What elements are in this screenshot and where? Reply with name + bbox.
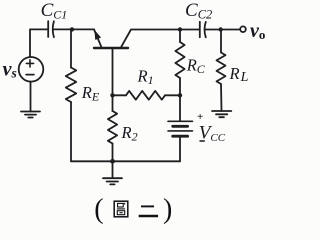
vs plus sign: [26, 60, 33, 67]
resistor RL: [217, 30, 226, 111]
wire from CC1 to emitter corner: [53, 28, 94, 30]
vs minus sign: [26, 74, 34, 76]
wire top-left rail from input corner to capacitor CC1: [30, 29, 48, 57]
ground below vs: [21, 112, 40, 118]
label battery minus (underline below V): [200, 140, 205, 142]
resistor R2: [108, 95, 117, 161]
caption glyph ER (two): [139, 206, 158, 216]
transistor Q1 base bar: [94, 47, 128, 49]
capacitor CC1: [48, 21, 54, 37]
svg-text:(: (: [94, 194, 103, 225]
battery VCC: [168, 121, 193, 136]
wire from RC node to capacitor CC2: [180, 29, 200, 31]
svg-text:vs: vs: [3, 58, 17, 80]
wire RE top lead: [70, 29, 72, 67]
node B junction dot (base / R1 / R2): [110, 93, 114, 97]
svg-text:CC2: CC2: [185, 0, 212, 22]
svg-text:RC: RC: [186, 55, 206, 76]
node D junction dot (collector rail / RC top): [178, 27, 182, 31]
wire bottom rail: [71, 160, 180, 162]
node F junction dot (R2 bottom / ground): [110, 159, 115, 164]
transistor Q1 emitter lead with arrow: [94, 29, 102, 48]
svg-text:vo: vo: [250, 20, 265, 42]
wire VCC top lead: [179, 95, 181, 120]
resistor RE: [66, 68, 76, 103]
wire base lead down to R1/R2 node: [112, 48, 114, 95]
svg-text:R2: R2: [121, 123, 138, 144]
wire from CC2 to output terminal: [205, 29, 240, 31]
output terminal vo open circle: [240, 26, 246, 32]
svg-text:RL: RL: [229, 64, 249, 85]
ground below RL: [212, 111, 231, 117]
wire RE bottom lead: [70, 102, 72, 161]
node C junction dot (RC bottom / R1 / VCC top): [178, 93, 182, 97]
node E junction dot (RL top): [219, 27, 223, 31]
svg-text:+: +: [197, 111, 203, 123]
capacitor CC2: [200, 22, 206, 38]
resistor R1: [113, 91, 181, 100]
wire vs bottom lead: [30, 82, 32, 112]
node A junction dot (CC1 / RE / emitter): [70, 27, 74, 31]
caption glyph TU (picture): [114, 201, 128, 217]
svg-text:RE: RE: [81, 83, 100, 104]
svg-text:): ): [163, 194, 172, 225]
resistor RC: [175, 30, 184, 96]
transistor Q1 collector lead: [121, 30, 180, 49]
caption (figure two): [94, 194, 172, 225]
svg-text:CC1: CC1: [41, 0, 68, 22]
svg-text:R1: R1: [137, 67, 154, 88]
ground below bottom rail: [103, 178, 122, 184]
voltage source vs: [19, 57, 44, 82]
wire ground stem mid: [112, 161, 114, 178]
wire VCC bottom lead: [179, 136, 181, 161]
